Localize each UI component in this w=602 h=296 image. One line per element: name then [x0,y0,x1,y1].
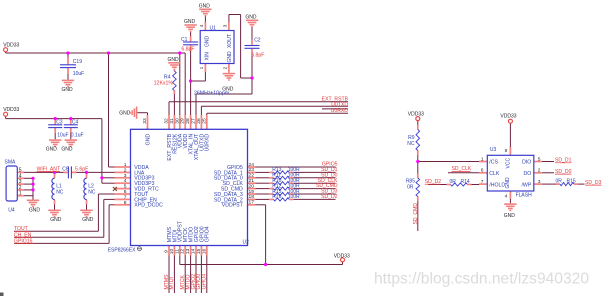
svg-text:GND: GND [504,213,516,219]
svg-text:C1: C1 [181,37,188,43]
svg-text:6: 6 [481,168,484,174]
svg-text:24: 24 [249,162,255,168]
svg-text:MTDI: MTDI [169,277,175,289]
svg-text:7: 7 [124,194,127,200]
svg-text:VDD33: VDD33 [3,43,19,49]
svg-text:GND: GND [62,87,74,93]
svg-text:17: 17 [249,200,255,206]
svg-text:12Kx1%: 12Kx1% [154,81,174,87]
svg-text:19: 19 [249,189,255,195]
svg-text:1: 1 [19,191,22,197]
svg-text:C6: C6 [62,166,69,172]
svg-text:U0RXD: U0RXD [205,134,211,152]
svg-text:29: 29 [180,118,186,124]
svg-text:GND: GND [119,111,131,117]
svg-text:GND: GND [46,146,58,152]
svg-text:5: 5 [538,156,541,162]
svg-text:8: 8 [124,200,127,206]
svg-text:3: 3 [223,24,229,27]
svg-text:4: 4 [505,194,508,200]
svg-text:SMA: SMA [5,160,17,166]
svg-text:13: 13 [185,249,191,255]
svg-text:0R: 0R [450,179,457,185]
svg-text:28: 28 [185,118,191,124]
svg-text:2: 2 [223,66,229,69]
svg-text:10uF: 10uF [73,71,84,77]
svg-text:R4: R4 [164,74,171,80]
svg-text:U4: U4 [8,208,15,214]
svg-text:VDD33: VDD33 [3,107,19,113]
svg-text:GND: GND [204,36,210,48]
svg-text:/WP: /WP [521,182,531,188]
svg-text:XIN: XIN [204,52,210,61]
svg-text:SD_CMD: SD_CMD [413,203,419,225]
svg-text:C4: C4 [72,119,79,125]
svg-text:GPIO4: GPIO4 [205,226,211,242]
svg-text:VDDPST: VDDPST [222,203,244,209]
svg-text:11: 11 [174,249,180,254]
svg-text:SD_D2: SD_D2 [321,194,338,200]
svg-text:6.8pF: 6.8pF [181,46,194,52]
svg-text:2: 2 [538,168,541,174]
svg-text:NC: NC [88,190,96,196]
svg-text:VDD33: VDD33 [334,254,350,260]
svg-text:0R: 0R [407,185,414,191]
svg-text:C2: C2 [254,38,261,44]
svg-text:9: 9 [164,250,170,253]
svg-text:GND: GND [29,208,41,214]
svg-text:18: 18 [249,194,255,200]
svg-text:3: 3 [124,173,127,179]
svg-text:DO: DO [524,171,532,177]
svg-text:10uF: 10uF [57,133,68,139]
svg-text:22: 22 [249,173,255,179]
svg-text:6.8pF: 6.8pF [251,53,264,59]
svg-text:https://blog.csdn.net/lzs94032: https://blog.csdn.net/lzs940320 [374,271,589,288]
svg-text:26: 26 [196,118,202,124]
svg-text:6: 6 [124,189,127,195]
svg-text:C3: C3 [56,119,63,125]
svg-text:U2: U2 [243,239,250,245]
svg-text:4: 4 [124,178,127,184]
svg-text:NC: NC [56,190,64,196]
svg-text:R76: R76 [272,194,281,200]
svg-text:26MHz±10ppm: 26MHz±10ppm [194,90,229,96]
svg-text:30: 30 [174,118,180,124]
svg-text:GND: GND [168,57,180,63]
svg-text:U3: U3 [490,147,497,153]
svg-text:GND: GND [145,134,151,146]
svg-text:VDD33: VDD33 [500,114,516,120]
svg-text:GND: GND [61,146,73,152]
svg-text:GND: GND [82,217,94,223]
svg-text:5: 5 [124,184,127,190]
svg-text:14: 14 [191,249,197,255]
svg-text:33: 33 [142,118,148,124]
svg-text:C19: C19 [73,59,82,65]
svg-text:15: 15 [196,249,202,255]
svg-text:XPD_DCDC: XPD_DCDC [134,203,163,209]
svg-text:CLK: CLK [489,171,500,177]
svg-text:21: 21 [249,178,255,184]
svg-text:25: 25 [201,118,207,124]
svg-text:3: 3 [538,179,541,185]
svg-text:R15: R15 [567,179,576,185]
svg-text:DIO: DIO [522,160,531,166]
svg-text:31: 31 [169,118,175,124]
svg-text:5.6pF: 5.6pF [75,166,88,172]
svg-text:4: 4 [199,24,205,27]
svg-text:GND: GND [505,177,511,189]
svg-text:7: 7 [481,179,484,185]
svg-text:27: 27 [191,118,197,124]
svg-text:VCC: VCC [506,158,512,169]
svg-text:U0RXD: U0RXD [331,108,349,114]
svg-text:20: 20 [249,183,255,189]
svg-text:ESP8266EX: ESP8266EX [108,247,136,253]
svg-text:16: 16 [201,249,207,255]
svg-text:8: 8 [505,148,508,154]
svg-text:10: 10 [169,249,175,255]
svg-text:1: 1 [481,156,484,162]
svg-text:U1: U1 [210,25,217,31]
svg-text:0.1uF: 0.1uF [71,133,84,139]
svg-text:GND: GND [199,4,211,10]
svg-text:12: 12 [180,249,186,255]
svg-text:GND: GND [227,51,233,63]
svg-text:GND: GND [245,15,257,21]
svg-text:GPIO4: GPIO4 [202,274,208,290]
svg-text:/CS: /CS [489,160,498,166]
svg-text:100R: 100R [288,194,300,200]
svg-text:FLASH: FLASH [516,192,533,198]
svg-text:XOUT: XOUT [227,34,233,48]
svg-text:R14: R14 [461,179,470,185]
svg-text:1: 1 [199,66,205,69]
svg-text:VDD33: VDD33 [408,111,424,117]
svg-text:2: 2 [124,167,127,173]
svg-text:1: 1 [124,162,127,168]
svg-text:32: 32 [164,118,170,124]
svg-text:0R: 0R [556,179,563,185]
svg-text:GND: GND [50,217,62,223]
svg-text:NC: NC [407,141,415,147]
svg-text:/HOLD: /HOLD [489,182,505,188]
svg-text:23: 23 [249,167,255,173]
svg-text:GND: GND [184,19,196,25]
